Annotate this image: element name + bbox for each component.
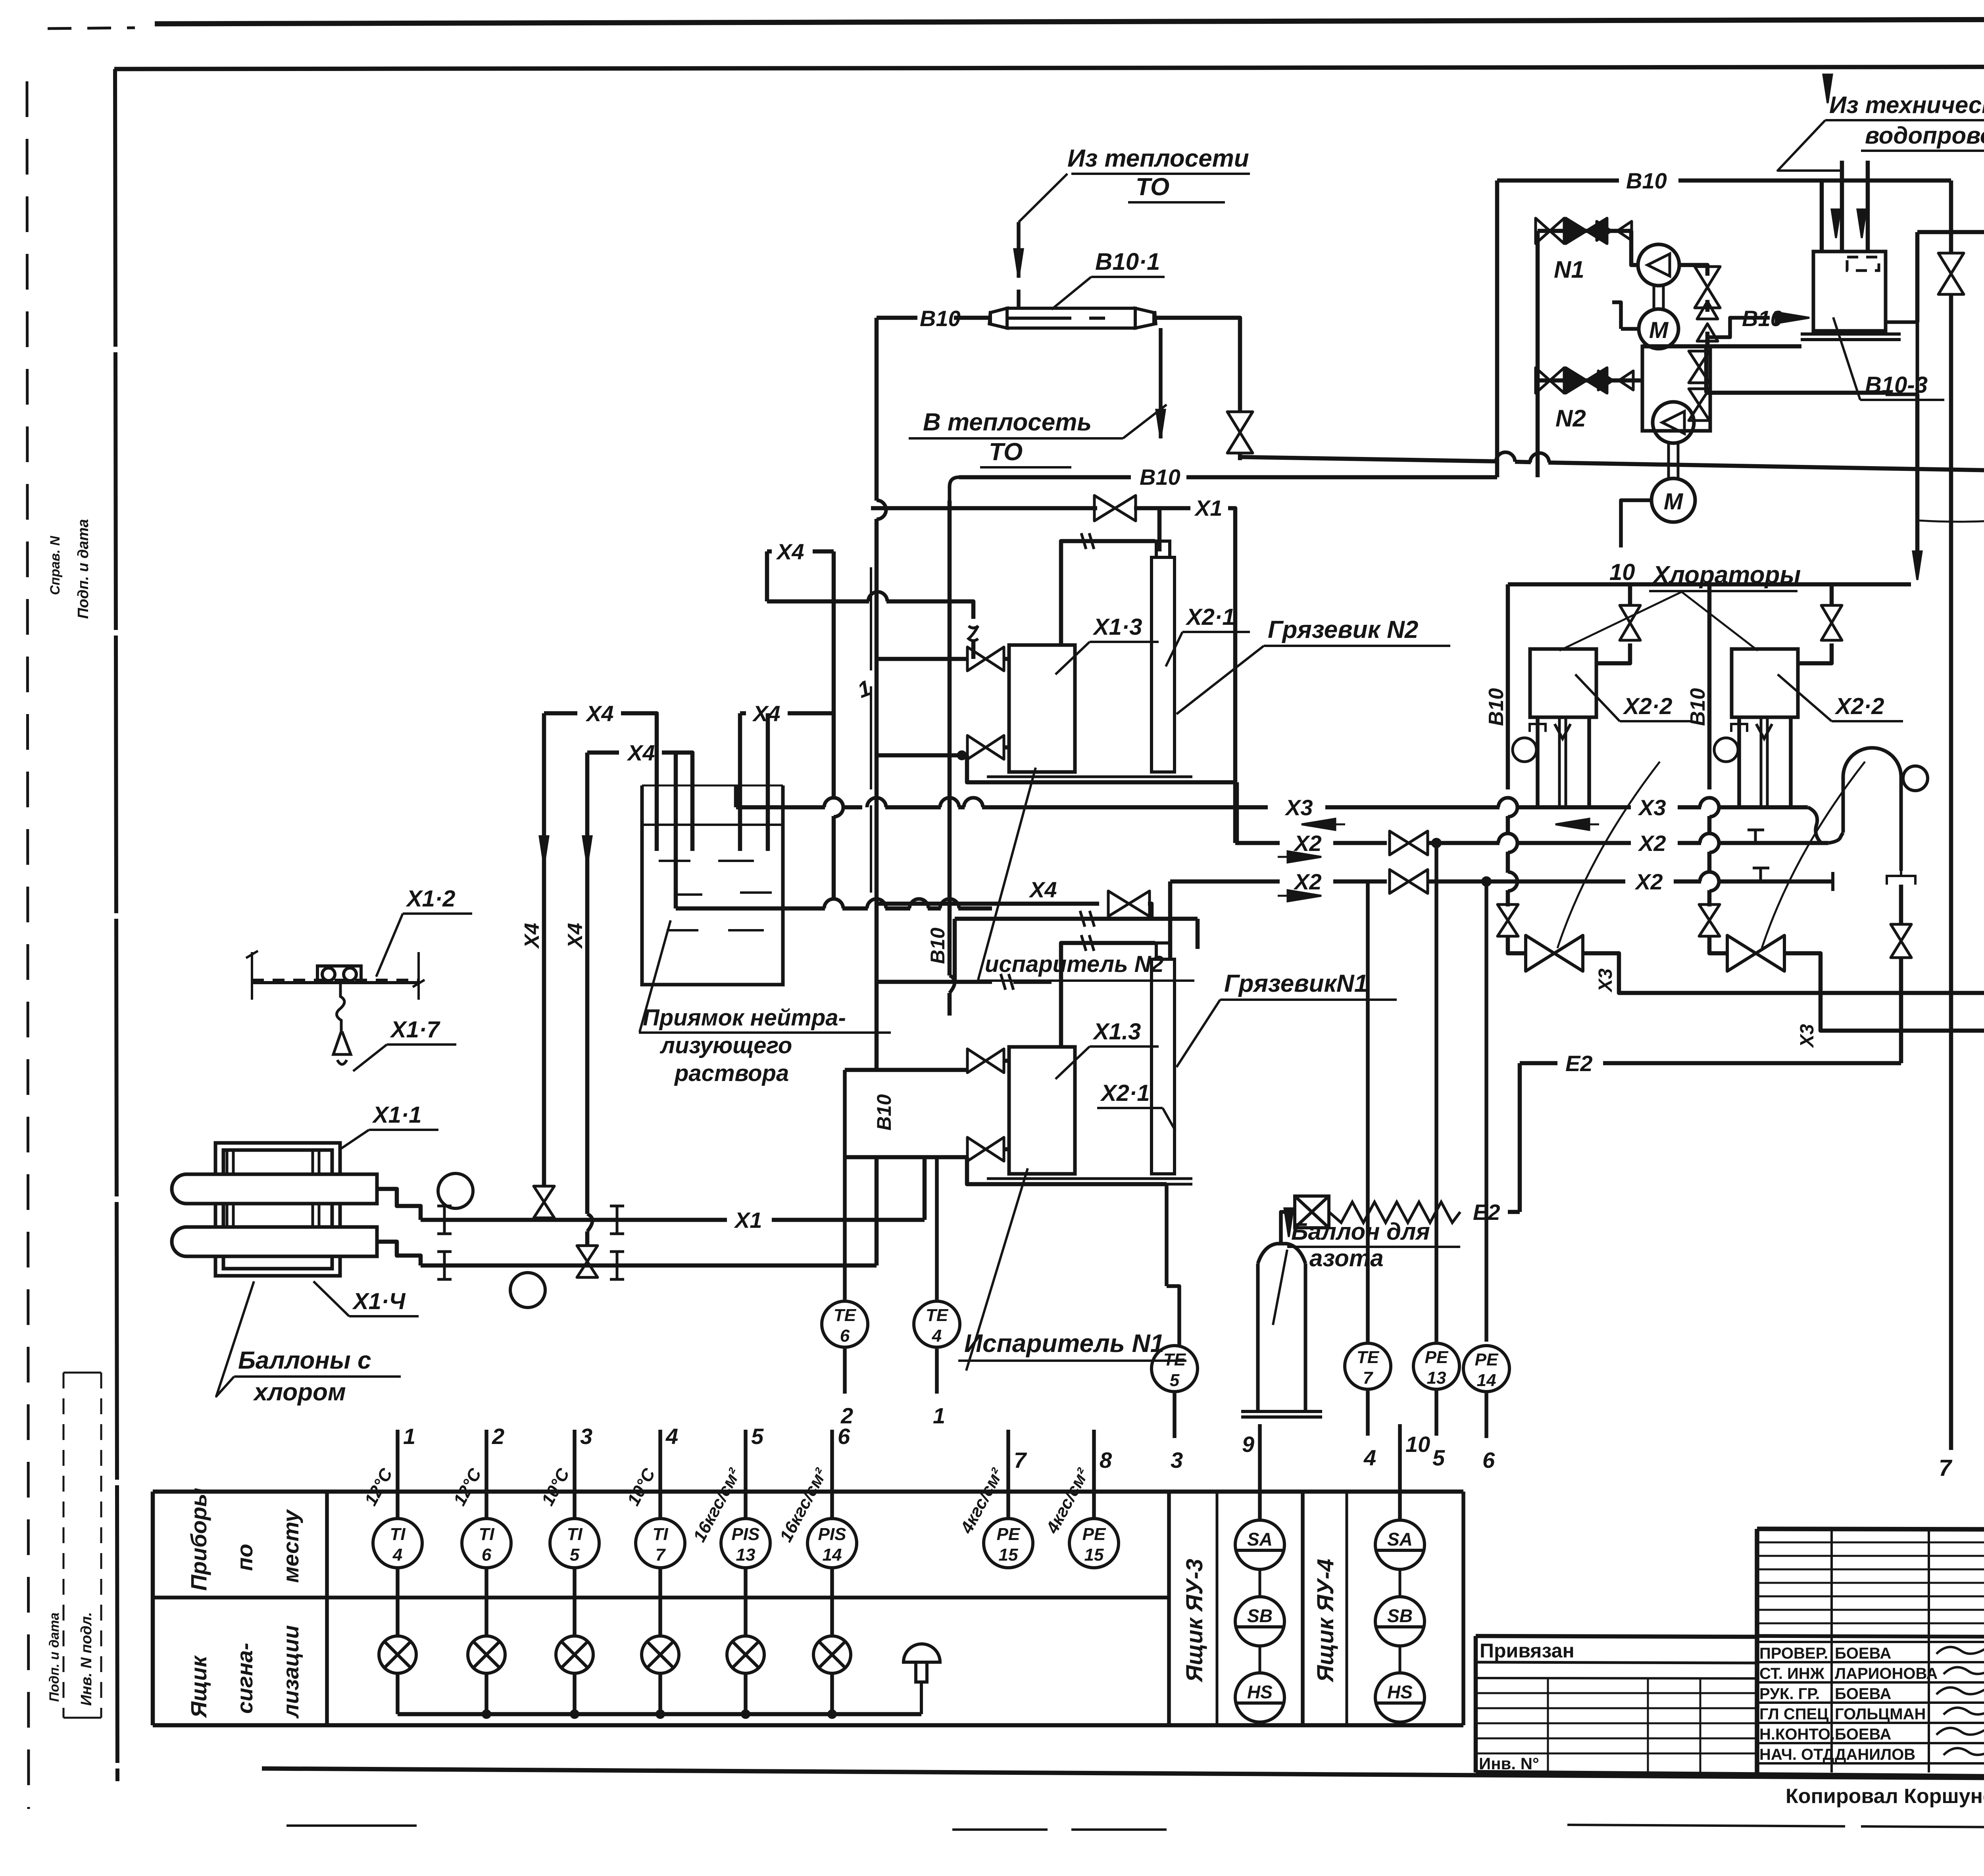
pipe Х4 feed (885, 906, 910, 911)
svg-text:раствора: раствора (674, 1060, 789, 1086)
pipe crossing jog (940, 899, 959, 908)
svg-text:13: 13 (1427, 1368, 1446, 1388)
svg-text:Приборы: Приборы (186, 1488, 211, 1591)
water dash (667, 929, 698, 931)
pipe jog to tank (1707, 318, 1770, 337)
line to lamp (658, 1568, 662, 1636)
pipe (971, 642, 976, 659)
svg-text:14: 14 (823, 1545, 842, 1565)
svg-text:2: 2 (492, 1424, 504, 1449)
pipe N2 suction (1538, 378, 1642, 383)
svg-text:Подп. и дата: Подп. и дата (47, 1613, 62, 1702)
bus junction dot (571, 1711, 578, 1718)
instrument TI7 (636, 1519, 685, 1568)
pipe (1705, 332, 1710, 346)
pipe Х4 feed 2 (928, 906, 941, 911)
leader (1055, 1046, 1090, 1079)
pipe right (1798, 643, 1832, 663)
line to lamp (396, 1568, 400, 1636)
jog over X3 right (1709, 798, 1719, 817)
svg-text:Х4: Х4 (776, 539, 804, 564)
title grid row (1757, 1596, 1984, 1598)
big valve right (1727, 935, 1784, 971)
pump shaft (1654, 286, 1663, 309)
pipe Х4 main vertical (832, 551, 836, 799)
scale dimension line (252, 952, 419, 1000)
svg-text:Х3: Х3 (1797, 1024, 1818, 1048)
грязевик column N1 (1152, 943, 1175, 1174)
big valve left (1526, 935, 1583, 971)
svg-text:БОЕВА: БОЕВА (1835, 1685, 1891, 1703)
small valve left (1498, 904, 1518, 936)
svg-text:РЕ: РЕ (997, 1525, 1021, 1544)
svg-text:Х3: Х3 (1638, 795, 1666, 820)
gauge right (1714, 738, 1738, 762)
line to lamp (573, 1568, 577, 1636)
pipe Х4 row3b (788, 711, 835, 716)
pipe (1238, 452, 1242, 460)
ТЕ7 riser (1366, 881, 1370, 1342)
break symbol 2 (1080, 911, 1094, 927)
chlorinator box right (1732, 649, 1798, 717)
svg-text:6: 6 (482, 1545, 492, 1565)
pipe Е2 header right (1603, 1061, 1901, 1066)
pipe feed N1 upper (845, 1068, 967, 1072)
pipe (1488, 475, 1497, 480)
thin leader to right big valve (1762, 762, 1865, 948)
pipe Е2 stub (1508, 1210, 1520, 1214)
manifold X1 upper 2 (772, 1218, 925, 1222)
tank В10-3 (1813, 252, 1886, 331)
flow arrow down (1156, 410, 1165, 438)
leader (216, 1281, 254, 1396)
valve left top (1620, 605, 1640, 640)
pipe Х4 feed 3 (958, 906, 992, 911)
valve N1 (1566, 218, 1607, 244)
pipe right (1709, 936, 1727, 953)
signature squiggle (1944, 1666, 1984, 1674)
pump N1 (1638, 244, 1679, 286)
title col (1830, 1529, 1833, 1772)
pipe В10 mid vertical (948, 501, 952, 975)
pipe right branch (1949, 180, 1953, 254)
chlorine cylinder 1 (172, 1174, 377, 1204)
instrument РЕ13 (1413, 1343, 1459, 1389)
pipe cyl2 out (377, 1242, 421, 1265)
header X3 (958, 805, 965, 810)
header X2b b (1333, 879, 1387, 884)
arrow on Х4 (540, 829, 548, 865)
svg-text:Х1·3: Х1·3 (1092, 614, 1142, 640)
pipe B1 water (1548, 463, 1984, 472)
stub below РЕ14 (1484, 1393, 1488, 1438)
svg-text:4: 4 (1363, 1445, 1376, 1470)
pipe В10 drop right (1707, 584, 1712, 789)
double drop pipe right (1756, 717, 1772, 807)
leader (1273, 1250, 1287, 1325)
svg-text:Баллон для: Баллон для (1291, 1218, 1430, 1245)
bus junction dot (742, 1711, 749, 1718)
double drop pipe left (1555, 717, 1571, 807)
label underline (369, 1129, 438, 1131)
pipe sewer drain (1915, 394, 1920, 551)
leader line (1575, 674, 1620, 721)
heat exchanger B10-1 body (989, 308, 1156, 328)
svg-text:ПРОВЕР.: ПРОВЕР. (1759, 1645, 1828, 1662)
header X2b stub right (1718, 879, 1833, 884)
pipe crossing jog (909, 899, 929, 908)
leader to right box (1682, 592, 1758, 651)
label underline (1090, 1045, 1159, 1048)
label underline (349, 1315, 419, 1317)
header X3 main (982, 805, 1268, 810)
arrow X3 (1555, 819, 1599, 830)
svg-text:5: 5 (570, 1545, 580, 1565)
svg-text:ТЕ: ТЕ (1163, 1350, 1186, 1369)
pump N2 shaft (1669, 443, 1678, 478)
pipe from теплосеть (1017, 222, 1021, 278)
svg-text:Подп. и дата: Подп. и дата (75, 519, 92, 619)
line to bus (744, 1673, 748, 1714)
instrument РЕ15-8 (1069, 1519, 1119, 1568)
svg-text:В10: В10 (1140, 465, 1180, 490)
motor tap 2 (1612, 302, 1621, 329)
pipe right (1707, 852, 1712, 873)
stub below ТЕ6 (843, 1349, 847, 1394)
line to bus (573, 1673, 577, 1714)
valve in N2 loop (1689, 351, 1709, 383)
gauge tap left (1536, 749, 1538, 751)
title sig row (1757, 1661, 1984, 1663)
pipe В10 (954, 316, 989, 320)
pipe ejector down right (1899, 958, 1903, 1063)
svg-text:5: 5 (751, 1424, 764, 1449)
title grid row (1757, 1609, 1984, 1611)
water dash (659, 860, 690, 862)
pipe (1822, 179, 1951, 183)
svg-text:Н.КОНТО.: Н.КОНТО. (1759, 1726, 1835, 1743)
pipe upper supply (767, 599, 869, 604)
leader line (1833, 317, 1860, 400)
svg-text:НS: НS (1247, 1682, 1273, 1702)
pipe Х4 feed (877, 902, 1099, 906)
leader (313, 1281, 349, 1316)
title sig row (1757, 1681, 1984, 1684)
hook X1-7 (333, 983, 351, 1064)
stamp box line (63, 1372, 101, 1374)
chlorine cylinder 2 (172, 1227, 377, 1256)
pit water level (642, 824, 783, 826)
pipe feed N2 upper (877, 657, 967, 661)
link (1399, 1646, 1401, 1673)
valve ejector right (1891, 924, 1911, 958)
svg-text:1: 1 (403, 1424, 415, 1449)
pipe Х4 row2b (662, 753, 692, 851)
pipe Х4 right vertical (585, 753, 590, 1214)
thin mark (286, 1824, 417, 1827)
svg-text:Инв. N°: Инв. N° (1479, 1754, 1539, 1773)
svg-text:Х2·2: Х2·2 (1834, 693, 1884, 719)
title top (1757, 1529, 1984, 1530)
balloon base (1241, 1411, 1322, 1417)
title sig row (1757, 1641, 1984, 1643)
support bracket on X2b (1753, 868, 1769, 881)
thin line under left (952, 1828, 1190, 1831)
pipe right (1830, 584, 1834, 605)
jog over X1 line (877, 500, 886, 519)
jog over В10 riser (1496, 452, 1515, 462)
flexible break symbol (969, 626, 978, 641)
svg-text:азота: азота (1309, 1245, 1384, 1271)
svg-text:ТЕ: ТЕ (926, 1306, 949, 1325)
stub below ТЕ7 (1366, 1391, 1370, 1436)
privyazan top (1476, 1636, 1757, 1637)
flow arrow (1832, 209, 1840, 238)
water dash (675, 893, 702, 896)
pipe top header left (1508, 582, 1709, 587)
signal lamp (556, 1636, 593, 1673)
pipe В10 (877, 316, 917, 320)
header X3 end (1718, 805, 1808, 810)
flange pair (610, 1206, 624, 1234)
alarm horn (904, 1644, 940, 1714)
title sig row (1757, 1701, 1984, 1704)
svg-text:В10: В10 (920, 306, 961, 331)
motor tap (1621, 327, 1638, 331)
water dash (740, 891, 772, 894)
privyazan row (1476, 1662, 1757, 1663)
title sig row (1757, 1762, 1984, 1765)
link (1399, 1569, 1401, 1597)
pipe top header right (1709, 582, 1911, 587)
pipe cyl1 out (377, 1189, 421, 1220)
label underline (1287, 1246, 1460, 1248)
instrument line 3 (573, 1430, 577, 1519)
switch NS 9 (1235, 1673, 1284, 1722)
support bracket on X2a (1748, 830, 1764, 843)
privyazan row thin (1476, 1722, 1757, 1724)
header X2b (1428, 879, 1625, 884)
pipe under tank (1642, 344, 1801, 349)
pipe left (1628, 584, 1632, 605)
pipe Х4 row2 (587, 751, 619, 755)
label underline (1220, 998, 1397, 1001)
svg-text:Х2: Х2 (1638, 831, 1666, 856)
svg-text:6: 6 (840, 1326, 850, 1346)
svg-text:Х1·Ч: Х1·Ч (352, 1288, 406, 1314)
svg-text:3: 3 (1171, 1448, 1183, 1473)
svg-text:Х1: Х1 (1194, 495, 1223, 520)
scale ticks (246, 951, 425, 987)
switch SA 10 (1375, 1520, 1425, 1569)
privyazan row thin (1476, 1738, 1757, 1740)
filter box E2 (1295, 1196, 1329, 1228)
svg-text:В10·1: В10·1 (1095, 248, 1160, 275)
stamp box line (100, 1373, 102, 1718)
line 9 (1258, 1424, 1262, 1520)
chlorinator box left (1530, 649, 1596, 717)
pipe feed N1 lower (845, 1155, 967, 1160)
gauge left (1513, 738, 1536, 762)
break symbol on pipe N2 (1081, 533, 1094, 549)
S drop from X3 end (1808, 807, 1821, 843)
instrument РЕ15-7 (984, 1519, 1033, 1568)
manifold X1 lower (421, 1263, 877, 1268)
pipe (542, 1218, 546, 1220)
jog over feed vert (964, 798, 983, 807)
leader line (1052, 277, 1091, 309)
pipe Х1 drop to X2a (1228, 508, 1235, 843)
svg-text:PIS: PIS (818, 1525, 846, 1544)
switch SB 9 (1235, 1597, 1284, 1646)
svg-text:Х3: Х3 (1284, 795, 1313, 820)
instrument line 4 (658, 1430, 662, 1519)
ejector ball right (1903, 766, 1928, 791)
instrument TI6 (462, 1519, 511, 1568)
line to bus (658, 1673, 662, 1714)
header X3 (1678, 805, 1701, 810)
svg-text:ГрязевикN1: ГрязевикN1 (1224, 970, 1368, 997)
svg-text:TI: TI (479, 1525, 494, 1544)
pipe Х4 feed (842, 906, 868, 911)
title col (1928, 1529, 1930, 1772)
pipe B1 water (1240, 457, 1498, 461)
svg-text:15: 15 (999, 1545, 1018, 1565)
pipe В10 top (1497, 179, 1619, 183)
line to lamp (744, 1568, 748, 1636)
pipe B1 water (1515, 462, 1531, 462)
label underline (403, 912, 472, 915)
base rail N1 (987, 1179, 1192, 1184)
title left (1755, 1529, 1759, 1772)
privyazan row thin (1476, 1707, 1757, 1709)
pipe y2475 end (1013, 980, 1052, 984)
svg-text:Инв. N подл.: Инв. N подл. (78, 1612, 95, 1706)
instrument TI5 (550, 1519, 599, 1568)
label underline (1097, 1107, 1163, 1109)
pipe N2 (1004, 745, 1009, 750)
gauge on X1 lower (510, 1273, 545, 1308)
pipe X3 to pit (734, 785, 738, 807)
svg-text:Х4: Х4 (585, 701, 614, 726)
pipe crossing jog (867, 899, 886, 908)
pipe right (1707, 890, 1712, 906)
instrument PIS13 (721, 1519, 770, 1568)
instrument ТЕ7 (1345, 1343, 1391, 1389)
valve X2b (1390, 870, 1428, 893)
jog over X2 left (1508, 833, 1517, 853)
header X2a (1678, 841, 1701, 845)
motor M1 (1639, 309, 1678, 349)
border frame left outer dashed line (27, 81, 29, 1809)
svg-text:ДАНИЛОВ: ДАНИЛОВ (1835, 1746, 1915, 1763)
svg-text:Х2: Х2 (1293, 869, 1322, 894)
svg-text:НАЧ. ОТД: НАЧ. ОТД (1759, 1746, 1834, 1763)
pipe drop3 right (1789, 717, 1793, 807)
pipe В10 lower header b (1186, 475, 1488, 480)
pipe to X2a (1235, 782, 1239, 843)
svg-text:ТЕ: ТЕ (834, 1306, 857, 1325)
lamp bus (398, 1712, 921, 1717)
pipe crossing jog (1498, 798, 1517, 807)
arrow X2a (1278, 851, 1321, 862)
instrument table divider (153, 1596, 1169, 1599)
privyazan row thin (1476, 1692, 1757, 1694)
cylinder rack frame X1-1 (215, 1143, 340, 1276)
svg-text:Х3: Х3 (1595, 968, 1616, 993)
svg-text:10: 10 (1609, 559, 1635, 585)
pipe drain left (1583, 953, 1619, 980)
pipe balloon up (1281, 1212, 1295, 1244)
line 10 (1398, 1424, 1402, 1520)
riser from tank box (1915, 232, 1920, 322)
line to bus (396, 1673, 400, 1714)
pipe into pit 4 (766, 713, 770, 851)
pipe into tank (1820, 180, 1824, 252)
pipe Х4 row1 (544, 711, 577, 716)
valve upper N2 (967, 647, 1004, 671)
ТЕ6 riser (843, 1070, 847, 1300)
pit walls Приямок (642, 785, 783, 985)
junction dot (1482, 878, 1490, 885)
svg-text:2: 2 (840, 1403, 853, 1428)
instrument line 1 (396, 1430, 400, 1519)
valve N1 outer (1536, 218, 1564, 244)
instrument table inner col (325, 1492, 329, 1725)
jog over manifold (1530, 453, 1549, 463)
svg-text:4: 4 (932, 1326, 942, 1346)
leader line B9 (1778, 120, 1841, 171)
tank base flange (1801, 334, 1901, 340)
pipe crossing jog (1700, 798, 1719, 807)
motor tap N2 (1621, 500, 1651, 547)
gauge tap right (1738, 749, 1739, 751)
svg-text:ТЕ: ТЕ (1357, 1348, 1380, 1367)
leader line (1019, 174, 1067, 222)
svg-text:В теплосеть: В теплосеть (923, 409, 1092, 436)
junction dot (958, 752, 965, 759)
svg-text:13: 13 (736, 1545, 756, 1565)
thin line under right (1567, 1825, 1984, 1827)
ТЕ4 riser (935, 1157, 939, 1300)
pipe right (1707, 816, 1712, 834)
thin leader to left big valve (1557, 762, 1660, 948)
flow arrow небольшой (1823, 75, 1832, 103)
header X2a (1516, 841, 1631, 845)
instrument line 2 (484, 1430, 488, 1519)
valve lower N1 (967, 1137, 1004, 1161)
грязевик column N2 (1152, 541, 1175, 772)
scale platform with rollers (252, 966, 419, 983)
base rail N2 (987, 777, 1192, 782)
label underline (1832, 720, 1903, 722)
stamp box line (63, 1717, 101, 1719)
svg-text:SА: SА (1387, 1529, 1413, 1550)
switch SB 10 (1375, 1597, 1425, 1646)
jog over X2b right (1709, 872, 1719, 891)
svg-text:Копировал Коршунова: Копировал Коршунова (1786, 1785, 1984, 1808)
signal lamp (813, 1636, 851, 1673)
svg-text:РУК. ГР.: РУК. ГР. (1759, 1685, 1820, 1703)
svg-text:Привязан: Привязан (1480, 1640, 1575, 1662)
border frame inner top line (114, 66, 1984, 69)
pipe N1 suction (1538, 229, 1631, 233)
privyazan col (1699, 1678, 1701, 1772)
instrument ТЕ4 (914, 1301, 960, 1347)
leader (966, 1168, 1028, 1371)
title heavy row (1757, 1636, 1984, 1637)
border frame outer top line (155, 18, 1984, 24)
